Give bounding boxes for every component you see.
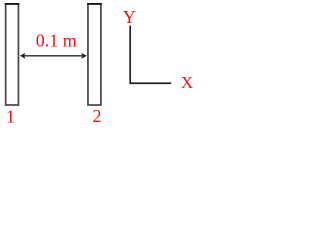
svg-text:1: 1: [6, 106, 15, 126]
svg-text:Y: Y: [123, 7, 136, 27]
svg-text:X: X: [181, 73, 193, 92]
svg-text:2: 2: [93, 106, 102, 126]
svg-text:0.1 m: 0.1 m: [36, 30, 77, 50]
